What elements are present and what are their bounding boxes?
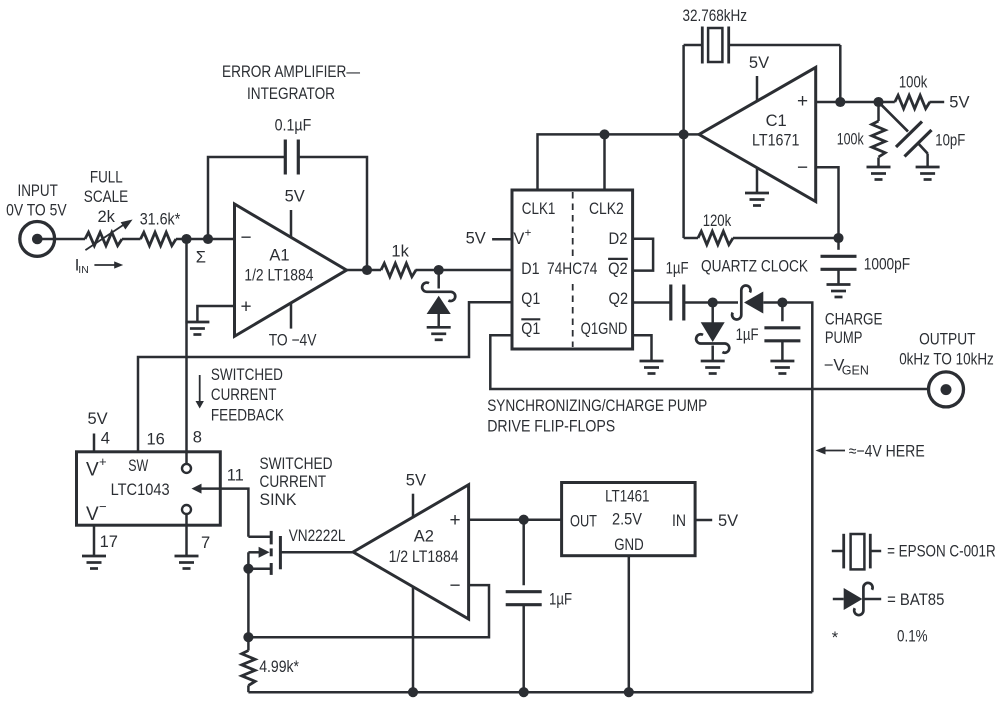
node feedback tap bbox=[203, 234, 213, 244]
svg-text:IN: IN bbox=[78, 264, 89, 276]
wire A1 + input bbox=[197, 306, 234, 322]
ground bbox=[185, 321, 209, 324]
svg-text:−: − bbox=[797, 158, 808, 179]
diode BAT85 pump series bbox=[732, 286, 750, 320]
svg-text:74HC74: 74HC74 bbox=[547, 260, 597, 278]
svg-text:5V: 5V bbox=[949, 94, 969, 112]
svg-text:Q1GND: Q1GND bbox=[581, 320, 628, 338]
svg-text:120k: 120k bbox=[703, 212, 732, 230]
svg-text:D2: D2 bbox=[609, 230, 628, 248]
node A2 + junction bbox=[519, 515, 529, 525]
node 100k junction bbox=[873, 97, 883, 107]
wire C1 output node bbox=[684, 133, 699, 136]
wire D2 to Q2bar loop bbox=[633, 239, 654, 271]
svg-text:4.99k*: 4.99k* bbox=[259, 658, 299, 676]
switch pole contact pin 7 bbox=[182, 505, 191, 514]
svg-text:SWITCHED: SWITCHED bbox=[260, 455, 333, 473]
wire switched current feedback vertical bbox=[185, 239, 188, 464]
svg-text:0V TO 5V: 0V TO 5V bbox=[6, 201, 67, 219]
svg-text:CHARGE: CHARGE bbox=[825, 311, 883, 329]
LTC1043 pin 7 ground bbox=[185, 514, 188, 556]
A2 5V supply stub bbox=[412, 494, 415, 517]
IC LTC1043 switch box bbox=[77, 452, 221, 525]
svg-text:OUTPUT: OUTPUT bbox=[919, 331, 975, 349]
label 74HC74 bbox=[544, 258, 601, 281]
ground bbox=[827, 283, 851, 286]
node A2 V- rail bbox=[408, 687, 418, 697]
IC LT1461 2.5V reference box bbox=[562, 483, 696, 556]
svg-text:C1: C1 bbox=[766, 112, 787, 130]
svg-text:5V: 5V bbox=[88, 410, 108, 428]
capacitor 10pF tilted bbox=[879, 102, 909, 132]
svg-text:+: + bbox=[99, 454, 107, 469]
svg-text:LT1461: LT1461 bbox=[605, 487, 649, 505]
ground bbox=[701, 360, 725, 363]
potentiometer 2k FULL SCALE bbox=[85, 232, 122, 245]
transistor Q1 VN2222L bbox=[248, 535, 271, 538]
svg-text:2k: 2k bbox=[98, 208, 116, 226]
svg-text:SINK: SINK bbox=[260, 491, 297, 509]
output BNC connector bbox=[929, 372, 964, 407]
LT1461 GND stub bbox=[628, 556, 631, 693]
crystal Y1 32.768kHz bbox=[684, 44, 703, 47]
svg-text:Q1: Q1 bbox=[521, 320, 540, 338]
node 1k-D1 bbox=[434, 265, 444, 275]
wire bbox=[416, 269, 513, 272]
wire CLK2 to clock bus bbox=[603, 134, 606, 190]
svg-text:DRIVE FLIP-FLOPS: DRIVE FLIP-FLOPS bbox=[487, 418, 615, 436]
svg-text:Q2: Q2 bbox=[608, 260, 628, 278]
wire CLK1 to clock bus bbox=[538, 134, 684, 190]
svg-text:GND: GND bbox=[614, 536, 644, 554]
wire crystal to + input bbox=[839, 45, 842, 102]
svg-text:PUMP: PUMP bbox=[825, 329, 863, 347]
svg-text:SWITCHED: SWITCHED bbox=[211, 366, 283, 384]
svg-text:10pF: 10pF bbox=[935, 131, 965, 149]
wire -V rail bbox=[248, 691, 812, 694]
svg-text:−: − bbox=[450, 576, 461, 597]
LTC1043 pin 4 5V stub bbox=[93, 434, 96, 452]
svg-text:8: 8 bbox=[193, 429, 202, 447]
svg-text:D1: D1 bbox=[521, 260, 539, 278]
wire pin 11 to VN2222L drain bbox=[220, 489, 248, 537]
wire C1 + input bbox=[816, 101, 895, 104]
svg-text:*: * bbox=[832, 629, 839, 647]
svg-text:0.1%: 0.1% bbox=[897, 627, 928, 645]
svg-text:Q1: Q1 bbox=[521, 290, 540, 308]
svg-text:7: 7 bbox=[201, 534, 210, 552]
op-amp A1 1/2 LT1884 bbox=[235, 204, 347, 336]
svg-text:100k: 100k bbox=[899, 73, 928, 91]
node 1uF rail bbox=[519, 687, 529, 697]
svg-text:SW: SW bbox=[128, 457, 148, 475]
svg-text:1µF: 1µF bbox=[549, 591, 572, 609]
C1 ground stub bbox=[756, 168, 759, 193]
resistor 100k to 5V bbox=[895, 95, 930, 108]
diode BAT85 pump clamp bbox=[711, 303, 714, 324]
wire bbox=[713, 301, 738, 304]
resistor 120k feedback bbox=[684, 237, 698, 240]
svg-text:SCALE: SCALE bbox=[84, 188, 128, 206]
ground bbox=[175, 555, 199, 558]
ground bbox=[916, 166, 940, 169]
svg-text:≈−4V HERE: ≈−4V HERE bbox=[849, 443, 925, 461]
wire A2 - feedback bbox=[248, 585, 489, 637]
svg-text:+: + bbox=[525, 228, 532, 240]
wire MOSFET gate to A2 output bbox=[280, 551, 353, 554]
svg-text:+: + bbox=[241, 297, 252, 318]
svg-text:IN: IN bbox=[672, 512, 686, 530]
wire bbox=[684, 301, 713, 304]
svg-text:5V: 5V bbox=[749, 54, 769, 72]
resistor 31.6k* bbox=[141, 232, 177, 245]
svg-text:FULL: FULL bbox=[90, 168, 123, 186]
svg-text:CURRENT: CURRENT bbox=[260, 473, 327, 491]
label approx -4V HERE arrow bbox=[816, 447, 826, 455]
wire bbox=[40, 238, 85, 241]
ground bbox=[770, 360, 794, 363]
A1 5V supply stub bbox=[290, 210, 293, 237]
op-amp A2 1/2 LT1884 bbox=[353, 485, 469, 619]
svg-text:= EPSON C-001R: = EPSON C-001R bbox=[887, 543, 996, 561]
node CLK2 junction bbox=[599, 129, 609, 139]
switch pole contact pin 8 bbox=[182, 464, 191, 473]
wire bbox=[122, 238, 141, 241]
node pump A bbox=[708, 297, 718, 307]
node sum junction bbox=[181, 234, 191, 244]
wire bbox=[176, 238, 235, 241]
svg-text:A2: A2 bbox=[414, 528, 434, 546]
svg-text:INTEGRATOR: INTEGRATOR bbox=[247, 85, 335, 103]
5V stub at V+ pin bbox=[492, 238, 512, 241]
svg-text:V: V bbox=[86, 460, 99, 481]
svg-text:Σ: Σ bbox=[196, 249, 206, 267]
wire Q1bar to output bbox=[490, 335, 928, 389]
capacitor 1uF at reference bbox=[522, 520, 525, 586]
IC U1 74HC74 dual flip-flop box bbox=[512, 190, 633, 349]
resistor 4.99k* bbox=[247, 637, 250, 650]
svg-text:CLK1: CLK1 bbox=[522, 200, 556, 218]
svg-text:31.6k*: 31.6k* bbox=[140, 210, 181, 228]
svg-text:5V: 5V bbox=[406, 471, 426, 489]
svg-text:17: 17 bbox=[100, 533, 118, 551]
wire source to feedback node bbox=[247, 569, 250, 638]
svg-text:16: 16 bbox=[147, 431, 165, 449]
node crystal junction bbox=[835, 97, 845, 107]
node 4.99k junction bbox=[243, 632, 253, 642]
comparator C1 LT1671 bbox=[699, 67, 816, 201]
svg-text:Q2: Q2 bbox=[609, 290, 629, 308]
node GND rail bbox=[624, 687, 634, 697]
ground bbox=[427, 326, 451, 329]
wire A1 output bbox=[347, 269, 381, 272]
svg-text:5V: 5V bbox=[466, 230, 486, 248]
svg-text:CLK2: CLK2 bbox=[589, 200, 624, 218]
wire crystal left leg bbox=[682, 45, 685, 238]
svg-text:LTC1043: LTC1043 bbox=[111, 481, 170, 499]
input BNC connector J1 bbox=[20, 222, 55, 257]
wire A2 + input bbox=[469, 518, 562, 521]
svg-text:VN2222L: VN2222L bbox=[289, 527, 346, 545]
svg-text:32.768kHz: 32.768kHz bbox=[683, 7, 748, 25]
svg-text:OUT: OUT bbox=[570, 512, 597, 530]
ground bbox=[640, 360, 664, 363]
wire C1 - input bbox=[816, 167, 839, 238]
svg-text:A1: A1 bbox=[269, 247, 289, 265]
switch arrow pin 11 bbox=[197, 487, 220, 490]
legend crystal EPSON C-001R bbox=[832, 550, 844, 553]
svg-text:1µF: 1µF bbox=[736, 326, 759, 344]
resistor 100k to ground bbox=[877, 102, 880, 121]
node 120k-1000pF bbox=[833, 233, 843, 243]
svg-text:+: + bbox=[450, 510, 461, 531]
svg-text:1/2 LT1884: 1/2 LT1884 bbox=[389, 548, 459, 566]
svg-text:V: V bbox=[86, 504, 99, 525]
svg-text:ERROR AMPLIFIER—: ERROR AMPLIFIER— bbox=[222, 63, 360, 81]
svg-text:1µF: 1µF bbox=[666, 260, 689, 278]
node source junction bbox=[243, 564, 253, 574]
svg-text:0.1µF: 0.1µF bbox=[275, 116, 312, 134]
svg-text:SYNCHRONIZING/CHARGE PUMP: SYNCHRONIZING/CHARGE PUMP bbox=[487, 397, 707, 415]
svg-text:= BAT85: = BAT85 bbox=[887, 591, 944, 609]
legend diode BAT85 bbox=[833, 598, 844, 601]
svg-text:GEN: GEN bbox=[842, 364, 869, 378]
svg-text:+: + bbox=[797, 91, 808, 112]
resistor 1k bbox=[381, 263, 416, 276]
ground bbox=[82, 555, 106, 558]
A2 V- stub to -V rail bbox=[412, 587, 415, 692]
node A1 output bbox=[362, 265, 372, 275]
LTC1043 pin 17 ground bbox=[93, 525, 96, 556]
svg-text:5V: 5V bbox=[285, 187, 305, 205]
svg-text:5V: 5V bbox=[718, 512, 738, 530]
svg-text:1/2 LT1884: 1/2 LT1884 bbox=[244, 266, 313, 284]
ground bbox=[867, 166, 891, 169]
ground bbox=[745, 192, 769, 195]
svg-text:FEEDBACK: FEEDBACK bbox=[211, 407, 284, 425]
capacitor 1uF pump coupling bbox=[669, 285, 672, 321]
svg-text:1k: 1k bbox=[391, 243, 409, 261]
svg-text:LT1671: LT1671 bbox=[752, 132, 799, 150]
A1 TO -4V stub bbox=[290, 303, 293, 329]
node C1 output bbox=[679, 129, 689, 139]
wire -V generated rail bbox=[782, 303, 812, 693]
wire Q1 to LTC1043 pin 16 bbox=[138, 302, 512, 452]
svg-text:TO −4V: TO −4V bbox=[269, 332, 317, 350]
wire Q1GND to ground bbox=[633, 335, 652, 360]
svg-text:V: V bbox=[513, 230, 524, 248]
capacitor 1uF pump reservoir bbox=[781, 303, 784, 322]
C1 5V supply stub bbox=[756, 76, 759, 101]
svg-text:100k: 100k bbox=[837, 131, 865, 149]
svg-text:2.5V: 2.5V bbox=[612, 511, 642, 529]
svg-text:CURRENT: CURRENT bbox=[211, 386, 277, 404]
svg-text:−: − bbox=[99, 499, 107, 514]
capacitor 1000pF bbox=[837, 238, 840, 250]
svg-text:INPUT: INPUT bbox=[18, 182, 58, 200]
svg-text:1000pF: 1000pF bbox=[864, 256, 911, 274]
LT1461 IN 5V stub bbox=[695, 519, 712, 522]
svg-text:QUARTZ CLOCK: QUARTZ CLOCK bbox=[701, 258, 808, 276]
svg-text:4: 4 bbox=[101, 429, 110, 447]
node pump output bbox=[777, 297, 787, 307]
wire Q2 output bbox=[633, 301, 671, 304]
diode BAT85 clamp at D1 input bbox=[437, 270, 440, 289]
svg-text:0kHz TO 10kHz: 0kHz TO 10kHz bbox=[899, 350, 994, 368]
capacitor 0.1uF integrator feedback bbox=[208, 157, 285, 239]
svg-text:11: 11 bbox=[227, 467, 244, 485]
svg-text:−: − bbox=[241, 228, 252, 249]
